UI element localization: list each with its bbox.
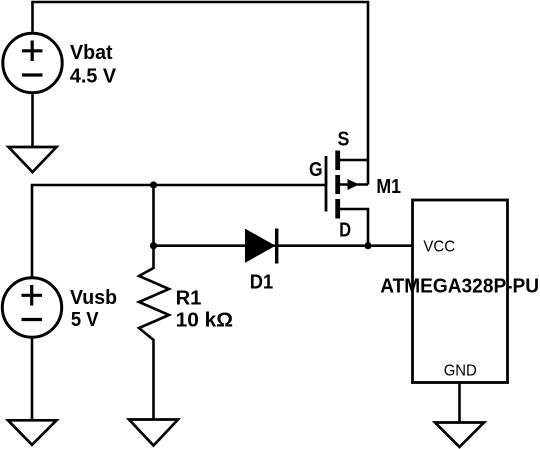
svg-text:S: S <box>338 129 350 151</box>
svg-text:R1: R1 <box>176 288 202 310</box>
svg-text:4.5 V: 4.5 V <box>70 65 117 87</box>
svg-text:5 V: 5 V <box>71 309 99 331</box>
svg-text:M1: M1 <box>376 176 401 198</box>
svg-text:Vusb: Vusb <box>70 287 117 309</box>
svg-text:Vbat: Vbat <box>70 42 113 64</box>
svg-text:10 kΩ: 10 kΩ <box>176 310 234 332</box>
svg-text:G: G <box>309 159 323 181</box>
svg-text:D1: D1 <box>250 272 273 294</box>
svg-text:ATMEGA328P-PU: ATMEGA328P-PU <box>380 276 539 298</box>
svg-text:GND: GND <box>444 362 477 379</box>
svg-text:D: D <box>339 220 351 242</box>
svg-text:VCC: VCC <box>423 238 455 255</box>
